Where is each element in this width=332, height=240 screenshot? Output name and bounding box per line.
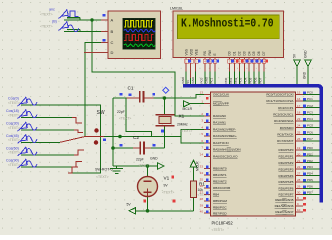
svg-text:RD5/PSP5: RD5/PSP5 — [279, 180, 294, 184]
svg-text:<TEXT>: <TEXT> — [8, 138, 20, 142]
svg-text:RC3/SCK/SCL: RC3/SCK/SCL — [273, 113, 294, 117]
wire cos6 row — [21, 166, 72, 168]
svg-text:RB5/PGM: RB5/PGM — [213, 199, 227, 203]
svg-text:PD4: PD4 — [307, 172, 313, 176]
svg-text:PD0: PD0 — [307, 146, 313, 150]
svg-text:RC7/RX/DT: RC7/RX/DT — [277, 139, 293, 143]
node switch out junction — [118, 135, 122, 139]
svg-text:38: 38 — [200, 197, 204, 201]
svg-text:(B): (B) — [52, 20, 57, 24]
wire cos5 row — [21, 154, 74, 156]
svg-text:19: 19 — [297, 146, 301, 150]
svg-text:RD1/PSP1: RD1/PSP1 — [279, 154, 294, 158]
terminal GND down arrow top right — [305, 60, 311, 67]
svg-text:PC3: PC3 — [307, 110, 313, 114]
svg-text:C2: C2 — [133, 135, 139, 140]
wire V1 top — [147, 166, 149, 177]
svg-text:PD7: PD7 — [258, 77, 262, 83]
LCD pin name labels — [185, 48, 266, 55]
generator Cos(18) — [18, 110, 38, 119]
scope screen — [123, 18, 156, 49]
svg-text:24: 24 — [297, 124, 301, 128]
svg-text:D: D — [111, 50, 114, 55]
blue state squares mid wires — [103, 14, 164, 147]
svg-text:PD6: PD6 — [253, 77, 257, 83]
svg-text:30: 30 — [297, 191, 301, 195]
svg-text:39: 39 — [200, 204, 204, 208]
generator Cos(60) — [18, 147, 38, 156]
svg-text:RD4/PSP4: RD4/PSP4 — [279, 174, 294, 178]
PIC left pin stubs — [204, 95, 211, 214]
switch contact 5 — [74, 150, 84, 155]
svg-text:PC0: PC0 — [307, 91, 313, 95]
junction diamond — [163, 87, 169, 93]
svg-text:29: 29 — [297, 185, 301, 189]
svg-text:PC4: PC4 — [307, 117, 313, 121]
terminal MCLR up arrow — [190, 160, 196, 167]
svg-text:RE2/CS/AN7: RE2/CS/AN7 — [275, 210, 293, 214]
svg-text:RD0/PSP0: RD0/PSP0 — [279, 148, 294, 152]
svg-text:PD2: PD2 — [234, 77, 238, 83]
svg-text:RB1/INT1: RB1/INT1 — [213, 173, 227, 177]
svg-text:RB7/PGD: RB7/PGD — [213, 211, 227, 215]
svg-text:20: 20 — [297, 152, 301, 156]
svg-text:RE0/RD/AN5: RE0/RD/AN5 — [275, 198, 294, 202]
svg-text:RA5/AN4/SS/LVDIN: RA5/AN4/SS/LVDIN — [213, 148, 241, 152]
svg-text:C: C — [111, 40, 114, 45]
svg-text:D7: D7 — [262, 51, 266, 55]
svg-text:<TEXT>: <TEXT> — [162, 191, 174, 195]
svg-text:15: 15 — [297, 91, 301, 95]
battery V1 — [138, 176, 175, 197]
svg-text:<TEXT>: <TEXT> — [180, 129, 192, 133]
svg-text:D0: D0 — [228, 51, 232, 55]
wire crystal branch — [163, 98, 165, 148]
wire node A down to RA0 route — [92, 20, 204, 116]
svg-text:5V: 5V — [293, 53, 297, 58]
svg-text:GND: GND — [191, 76, 195, 84]
svg-text:9V: 9V — [164, 184, 169, 188]
svg-text:<TEXT>: <TEXT> — [96, 175, 109, 179]
svg-text:28: 28 — [297, 178, 301, 182]
svg-text:RW: RW — [208, 50, 212, 55]
PIC right wires to bus — [303, 95, 320, 195]
svg-text:OSC1/CLKI: OSC1/CLKI — [213, 93, 229, 97]
svg-text:RA2/AN2/VREF-: RA2/AN2/VREF- — [213, 128, 236, 132]
svg-text:37: 37 — [200, 191, 204, 195]
svg-text:5V: 5V — [186, 80, 190, 84]
svg-text:PC1: PC1 — [209, 77, 213, 83]
wire C1 to OSC1 — [153, 95, 204, 99]
svg-text:RC2/CCP1: RC2/CCP1 — [278, 106, 294, 110]
svg-text:RC6/TX/CK: RC6/TX/CK — [277, 133, 294, 137]
svg-text:VSS: VSS — [185, 49, 189, 55]
svg-text:PC0: PC0 — [200, 77, 204, 83]
node C1-OSC junction — [163, 96, 167, 100]
svg-text:RA6/OSC2/CLKO: RA6/OSC2/CLKO — [213, 155, 238, 159]
BUS horizontal and vertical — [183, 86, 321, 203]
svg-text:17: 17 — [297, 104, 301, 108]
switch contact 6 — [72, 162, 82, 168]
scope pin C — [101, 42, 108, 44]
svg-text:MCLR: MCLR — [183, 107, 193, 111]
svg-text:22: 22 — [297, 165, 301, 169]
svg-text:RS: RS — [203, 51, 207, 55]
svg-text:PC7: PC7 — [307, 137, 313, 141]
svg-text:20MHz: 20MHz — [177, 123, 188, 127]
trace A yellow — [124, 21, 153, 27]
svg-text:PC5: PC5 — [307, 124, 313, 128]
svg-text:GND: GND — [302, 71, 306, 79]
LCD pin number boxes — [185, 59, 266, 63]
LCD wires to bus — [186, 72, 264, 85]
svg-text:22pF: 22pF — [136, 158, 144, 162]
svg-text:<TEXT>: <TEXT> — [8, 113, 20, 117]
LCD wire net labels — [181, 76, 262, 84]
svg-text:RA0/AN0: RA0/AN0 — [213, 114, 226, 118]
capacitor C1 — [117, 85, 153, 120]
svg-text:PD0: PD0 — [224, 77, 228, 83]
svg-text:SW: SW — [97, 110, 105, 116]
svg-text:RC1/T1OSI/CCP2A: RC1/T1OSI/CCP2A — [266, 99, 294, 103]
svg-text:RA4/T0CKI: RA4/T0CKI — [213, 141, 229, 145]
red state squares V1 R1 — [143, 176, 175, 203]
svg-text:<TEXT>: <TEXT> — [8, 126, 20, 130]
svg-text:PD1: PD1 — [307, 152, 313, 156]
svg-text:<TEXT>: <TEXT> — [119, 117, 131, 121]
crystal X1 — [156, 114, 193, 134]
svg-text:RB3/CCP2B: RB3/CCP2B — [213, 186, 230, 190]
svg-text:<TEXT>: <TEXT> — [138, 164, 150, 168]
wire cos4 row — [21, 141, 60, 143]
terminal 5V down arrow top right — [294, 60, 300, 67]
oscilloscope body — [84, 11, 161, 59]
svg-text:K.Moshnosti=0.70: K.Moshnosti=0.70 — [181, 17, 274, 30]
svg-text:25: 25 — [297, 130, 301, 134]
svg-text:GND: GND — [150, 157, 158, 161]
wire cos3 row — [21, 129, 74, 131]
PIC left pin names — [213, 93, 241, 216]
resistor R1 — [190, 181, 209, 198]
generator anc — [59, 10, 79, 19]
svg-text:D6: D6 — [257, 51, 261, 55]
wire MCLR to R1 — [193, 167, 195, 182]
svg-text:<TEXT>: <TEXT> — [212, 228, 225, 232]
terminal 5V left arrow — [129, 208, 136, 214]
svg-text:RB2/INT2: RB2/INT2 — [213, 180, 227, 184]
svg-text:<TEXT>: <TEXT> — [8, 101, 20, 105]
svg-text:RB6/PGC: RB6/PGC — [213, 206, 227, 210]
svg-text:26: 26 — [297, 137, 301, 141]
PIC right pin numbers — [297, 91, 301, 213]
svg-text:GND: GND — [304, 50, 308, 58]
svg-text:<TEXT>: <TEXT> — [40, 13, 53, 17]
terminal GND right arrow — [158, 163, 165, 169]
node A junction — [90, 18, 93, 21]
svg-text:23: 23 — [297, 117, 301, 121]
svg-text:PC1: PC1 — [307, 97, 313, 101]
svg-text:MCLR/VPP: MCLR/VPP — [213, 102, 229, 106]
svg-text:RA1/AN1: RA1/AN1 — [213, 121, 226, 125]
node ground junction — [146, 164, 150, 168]
svg-text:<TEXT>: <TEXT> — [8, 151, 20, 155]
svg-text:RC4/SDI/SDA: RC4/SDI/SDA — [274, 119, 294, 123]
svg-text:GND: GND — [204, 76, 208, 84]
svg-text:RD6/PSP6: RD6/PSP6 — [279, 187, 294, 191]
svg-text:D5: D5 — [252, 51, 256, 55]
svg-text:GND: GND — [181, 76, 185, 84]
generator Cos(0) — [18, 97, 38, 106]
svg-text:SW-ROT-6: SW-ROT-6 — [95, 168, 113, 172]
generator Cos(30) — [18, 122, 38, 131]
svg-text:D2: D2 — [238, 51, 242, 55]
svg-text:22pF: 22pF — [117, 110, 125, 114]
svg-text:RD3/PSP3: RD3/PSP3 — [279, 167, 294, 171]
generator Cos(90) — [18, 159, 38, 168]
svg-text:14: 14 — [200, 152, 204, 156]
PIC right pin names — [266, 93, 294, 215]
trace B blue — [124, 29, 155, 32]
switch contact 1 — [68, 167, 78, 173]
PIC left state squares — [206, 97, 209, 213]
scope pin B — [101, 31, 108, 33]
microcontroller U1 PIC18F452 — [211, 92, 296, 216]
svg-text:RB4: RB4 — [213, 193, 219, 197]
svg-text:B: B — [111, 29, 114, 34]
wire V1 bottom to 5V — [136, 197, 194, 211]
svg-text:13: 13 — [200, 91, 204, 95]
terminal MCLR right arrow near pin1 — [184, 101, 191, 107]
svg-text:C1: C1 — [128, 85, 134, 90]
svg-text:34: 34 — [200, 171, 204, 175]
svg-text:VDD: VDD — [190, 48, 194, 55]
switch wiper — [60, 137, 104, 143]
switch pole dots — [94, 128, 98, 132]
svg-text:anc: anc — [49, 8, 55, 12]
svg-text:40: 40 — [200, 209, 204, 213]
svg-text:PD2: PD2 — [307, 159, 313, 163]
generator B sine — [59, 22, 79, 32]
wire cos1 row — [21, 105, 101, 173]
svg-text:10: 10 — [297, 208, 301, 212]
svg-text:PD5: PD5 — [249, 77, 253, 83]
LCD LM016L — [170, 6, 284, 57]
svg-text:5V: 5V — [127, 203, 132, 207]
svg-text:X1: X1 — [179, 114, 185, 119]
svg-text:<TEXT>: <TEXT> — [8, 163, 20, 167]
svg-text:35: 35 — [200, 178, 204, 182]
svg-text:RC0/T1OSO/T1CKI: RC0/T1OSO/T1CKI — [266, 93, 293, 97]
generator Cos(45) — [18, 135, 38, 144]
svg-text:LM016L: LM016L — [170, 6, 183, 10]
PIC right net labels — [307, 91, 313, 195]
svg-text:PD6: PD6 — [307, 185, 313, 189]
svg-text:V1: V1 — [164, 176, 170, 181]
node C2 left junction — [111, 146, 115, 150]
wire gen anc to scope A — [64, 18, 101, 20]
svg-text:RB0/INT0: RB0/INT0 — [213, 167, 227, 171]
svg-text:PD4: PD4 — [244, 77, 248, 83]
svg-text:33: 33 — [200, 165, 204, 169]
trace C red — [124, 35, 153, 41]
PIC left pin numbers — [200, 91, 204, 214]
wire gen B to scope B — [64, 30, 101, 32]
svg-text:PD1: PD1 — [229, 77, 233, 83]
LCD screen — [178, 15, 280, 39]
svg-text:D1: D1 — [233, 51, 237, 55]
svg-text:RD7/PSP7: RD7/PSP7 — [279, 193, 294, 197]
wire ground row — [113, 165, 158, 167]
svg-text:PD7: PD7 — [307, 191, 313, 195]
wire RA2 RA4 link — [181, 130, 204, 144]
svg-text:RD2/PSP2: RD2/PSP2 — [279, 161, 294, 165]
svg-text:E: E — [213, 53, 217, 55]
svg-text:PD3: PD3 — [239, 77, 243, 83]
ground — [110, 166, 123, 174]
scope pin D — [84, 52, 108, 54]
svg-text:21: 21 — [297, 159, 301, 163]
VDD long red stub — [190, 72, 192, 79]
capacitor C2 — [133, 135, 151, 168]
wire C1 left vertical — [113, 98, 126, 166]
svg-text:VEE: VEE — [195, 49, 199, 55]
switch contact 2 — [72, 118, 82, 124]
svg-text:PIC18F452: PIC18F452 — [212, 221, 234, 226]
LCD pin stubs — [186, 58, 264, 72]
trace D green — [124, 44, 155, 46]
svg-text:D3: D3 — [242, 51, 246, 55]
svg-text:PD5: PD5 — [307, 178, 313, 182]
wire MCLR terminal to pin1 — [190, 103, 204, 105]
svg-text:27: 27 — [297, 172, 301, 176]
svg-text:RE1/WR/AN6: RE1/WR/AN6 — [275, 204, 294, 208]
svg-text:36: 36 — [200, 184, 204, 188]
wire switch output to PIC — [104, 136, 181, 138]
scope pin A — [101, 19, 108, 21]
svg-text:RA3/AN3/VREF+: RA3/AN3/VREF+ — [213, 134, 237, 138]
switch contact 3 — [74, 130, 83, 133]
node 5V rail junction — [146, 209, 150, 213]
wire cos2 row — [21, 117, 72, 119]
svg-text:PC6: PC6 — [307, 130, 313, 134]
PIC right pin stubs — [296, 95, 304, 213]
wire bridge over C2 — [126, 98, 152, 137]
svg-text:16: 16 — [297, 97, 301, 101]
svg-text:D4: D4 — [247, 51, 251, 55]
PIC right state squares — [303, 91, 306, 211]
svg-text:18: 18 — [297, 110, 301, 114]
junction dots — [90, 18, 166, 212]
svg-text:RC5/SDO: RC5/SDO — [280, 126, 294, 130]
wire scope C down to switch wiper — [85, 43, 101, 137]
LCD wire state squares — [188, 60, 268, 63]
svg-text:<TEXT>: <TEXT> — [40, 25, 53, 29]
switch SW rotary — [60, 118, 104, 174]
svg-text:PC2: PC2 — [307, 104, 313, 108]
wire C2 row — [113, 147, 164, 149]
svg-text:A: A — [111, 18, 114, 23]
svg-text:PD3: PD3 — [307, 165, 313, 169]
